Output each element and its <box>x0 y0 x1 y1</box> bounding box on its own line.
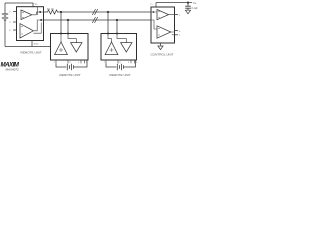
svg-text:V+: V+ <box>193 1 197 5</box>
op-amp U1a <box>21 10 32 20</box>
node dot on box2 top <box>107 33 109 35</box>
node VCC dot <box>187 1 189 3</box>
control unit box U4 <box>151 7 175 43</box>
wire battery loop U2 <box>56 60 87 67</box>
op-amp U1b <box>20 24 33 38</box>
wire U1b output <box>33 20 43 31</box>
svg-text:5: 5 <box>136 62 138 64</box>
svg-text:REMOTE UNIT: REMOTE UNIT <box>20 51 41 55</box>
pin stub left 3 <box>13 29 17 31</box>
wire battery+ to box top <box>5 3 33 7</box>
ground C1 <box>185 10 190 14</box>
svg-text:MAX4072: MAX4072 <box>6 67 20 71</box>
wire battery return <box>5 46 51 48</box>
svg-text:CONTROL UNIT: CONTROL UNIT <box>150 53 173 57</box>
node dot on box2 top <box>116 33 118 35</box>
op-amp U4b <box>157 26 171 38</box>
svg-text:GND: GND <box>34 44 39 46</box>
wire bus B <box>44 19 152 21</box>
wire bus B into U4b <box>151 20 157 29</box>
node B1 <box>67 19 69 21</box>
ground U4 <box>158 46 163 50</box>
capacitor C1 <box>185 3 191 10</box>
svg-text:V+: V+ <box>150 4 153 6</box>
break marks bus A <box>92 9 97 15</box>
pin stub left 1 <box>13 11 17 13</box>
pin VCC top of U4 <box>155 3 157 7</box>
wire internal supply <box>36 7 38 15</box>
wire drop A2 <box>107 12 109 34</box>
pin stub out1 <box>175 14 179 16</box>
amp symbol U2b (down triangle) <box>71 43 82 52</box>
remote unit box U3 <box>101 34 137 61</box>
node dot <box>39 11 41 13</box>
wire U4a in/out <box>151 12 175 15</box>
node A2 <box>107 11 109 13</box>
battery BT3 <box>117 64 123 70</box>
wire drop B1 <box>67 20 69 34</box>
svg-text:REMOTE UNIT: REMOTE UNIT <box>109 73 130 77</box>
pin stubs bottom U3 <box>106 60 135 63</box>
svg-text:1: 1 <box>179 15 181 17</box>
svg-text:R1 1Ω: R1 1Ω <box>47 8 54 11</box>
wire battery loop U3 <box>106 60 136 67</box>
node dot on box1 top <box>67 33 69 35</box>
pin stubs bottom U2 <box>56 60 85 63</box>
amp symbol U3b (down triangle) <box>121 43 132 52</box>
break marks bus B <box>92 17 97 23</box>
wire U1a output <box>32 12 44 15</box>
op-amp U4a <box>157 10 169 20</box>
pin GND bottom of U1 <box>31 41 33 47</box>
pin stub left 2 <box>13 21 17 23</box>
node A1 <box>60 11 62 13</box>
resistor R1 <box>44 10 60 14</box>
svg-text:V+: V+ <box>35 3 39 6</box>
wire VCC rail <box>156 2 192 4</box>
wire drop A1 <box>60 12 62 34</box>
wire U4b outputs <box>171 32 175 35</box>
battery BT2 <box>67 64 73 70</box>
svg-text:0.1µF: 0.1µF <box>192 7 199 10</box>
remote unit box U1 <box>17 7 44 41</box>
svg-text:8: 8 <box>9 30 11 32</box>
svg-text:2: 2 <box>9 12 11 14</box>
wire U3 internal <box>108 34 126 43</box>
amp symbol U3a (up triangle) <box>105 42 118 55</box>
pin stub out3 <box>175 34 179 36</box>
wire internal detail <box>34 23 42 34</box>
svg-text:4: 4 <box>78 62 80 64</box>
svg-text:3: 3 <box>9 22 11 24</box>
battery BT1 <box>2 3 8 47</box>
node dot input <box>153 11 155 13</box>
node dot <box>40 19 42 21</box>
remote unit box U2 <box>51 34 89 61</box>
svg-text:4: 4 <box>128 62 130 64</box>
svg-text:REMOTE UNIT: REMOTE UNIT <box>59 73 80 77</box>
wire U2 internal <box>61 34 76 43</box>
amp symbol U2a (up triangle) <box>55 42 68 55</box>
pin GND bottom of U4 <box>160 43 162 46</box>
wire bus A <box>59 11 151 13</box>
wire drop B2 <box>116 20 118 34</box>
pin stub out2 <box>175 30 179 32</box>
svg-text:6: 6 <box>179 31 181 33</box>
svg-text:7: 7 <box>179 35 181 37</box>
node B2 <box>116 19 118 21</box>
node dot on box1 top <box>60 33 62 35</box>
